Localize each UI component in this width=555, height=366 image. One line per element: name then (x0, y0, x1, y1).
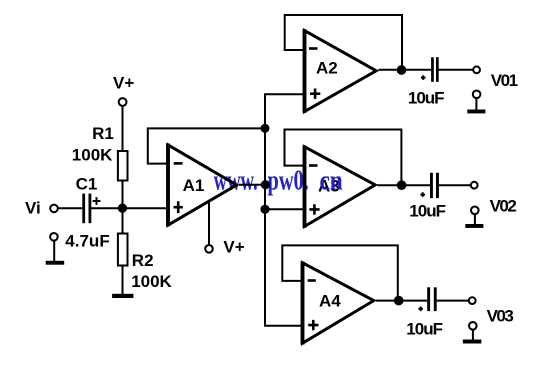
svg-text:100K: 100K (131, 272, 172, 291)
svg-text:cn: cn (320, 165, 343, 197)
svg-text:www.: www. (214, 166, 258, 197)
svg-text:V+: V+ (113, 73, 134, 92)
svg-text:A1: A1 (183, 176, 205, 195)
svg-text:100K: 100K (72, 146, 113, 165)
svg-text:4.7uF: 4.7uF (65, 231, 109, 250)
svg-text:10uF: 10uF (406, 320, 442, 339)
svg-text:V02: V02 (490, 196, 517, 215)
svg-text:A2: A2 (316, 59, 338, 78)
svg-text:R1: R1 (92, 124, 114, 143)
svg-text:A4: A4 (319, 292, 341, 311)
svg-text:10uF: 10uF (409, 202, 445, 221)
svg-text:C1: C1 (76, 175, 98, 194)
svg-text:R2: R2 (132, 251, 154, 270)
svg-text:Vi: Vi (25, 199, 41, 218)
svg-text:V01: V01 (491, 71, 518, 90)
svg-text:V+: V+ (223, 238, 244, 257)
svg-text:10uF: 10uF (408, 88, 444, 107)
svg-text:V03: V03 (487, 306, 514, 325)
